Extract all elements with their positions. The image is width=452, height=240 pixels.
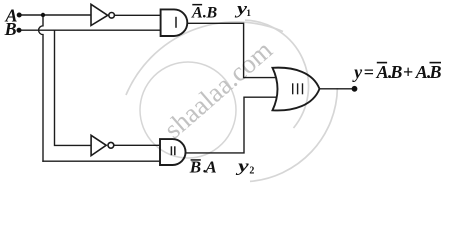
- label y1: [234, 0, 251, 19]
- svg-text:+: +: [403, 62, 413, 82]
- label output equation y = A-bar.B + A.B-bar: [352, 62, 441, 82]
- AND gate I: [161, 9, 188, 36]
- wire y1 from AND I to OR III: [187, 23, 278, 77]
- svg-text:1: 1: [246, 9, 251, 19]
- wire bottom horizontal A to AND II: [43, 160, 161, 162]
- wire vertical drop of B: [55, 30, 92, 145]
- wire NOT1 output to AND I: [115, 14, 162, 16]
- svg-text:B: B: [389, 62, 402, 82]
- label y2: [235, 157, 254, 177]
- node input terminal A: [17, 13, 22, 18]
- svg-text:A: A: [204, 157, 216, 176]
- svg-text:A: A: [191, 5, 203, 22]
- inverter NOT2: [91, 135, 114, 155]
- wire y2 from AND II to OR III: [186, 97, 279, 153]
- svg-text:=: =: [364, 62, 374, 82]
- wire OR III output: [320, 88, 355, 90]
- node output terminal y: [352, 86, 358, 92]
- wire NOT2 output to AND II: [114, 144, 161, 146]
- svg-text:B: B: [4, 19, 17, 39]
- svg-text:shaalaa.com: shaalaa.com: [158, 35, 278, 145]
- svg-text:2: 2: [249, 165, 254, 176]
- AND gate II: [160, 139, 186, 165]
- svg-text:y: y: [352, 62, 363, 82]
- node junction on A wire: [41, 13, 45, 17]
- node input terminal B: [17, 28, 22, 33]
- svg-text:B: B: [429, 62, 442, 82]
- watermark shaalaa.com: [126, 20, 337, 181]
- wire input A horizontal: [20, 14, 91, 16]
- wire input B horizontal to AND I: [21, 29, 161, 31]
- wire vertical drop of A with hop over B: [39, 15, 43, 161]
- label A-bar dot B on AND I output: [191, 4, 218, 22]
- label B-bar dot A on AND II output: [189, 157, 217, 176]
- svg-text:y: y: [235, 157, 249, 176]
- OR gate III: [273, 68, 320, 111]
- svg-text:B: B: [206, 5, 218, 22]
- inverter NOT1: [91, 4, 114, 25]
